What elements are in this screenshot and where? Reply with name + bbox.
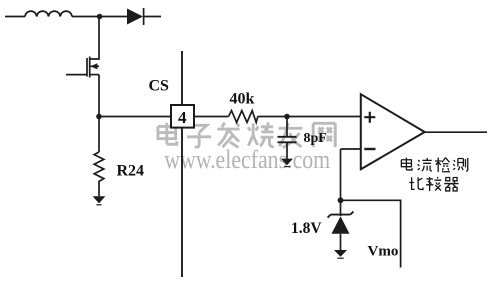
- ground under zener: [334, 250, 347, 258]
- wire cap bottom lead: [286, 142, 288, 158]
- ground under R24: [93, 196, 106, 205]
- wire minus input: [341, 148, 361, 150]
- wire node to R24: [98, 117, 100, 153]
- svg-text:CS: CS: [149, 78, 170, 95]
- diode D1: [127, 8, 144, 25]
- wire minus node vertical: [340, 149, 342, 200]
- junction dot node cap: [284, 114, 290, 120]
- wire gate lead: [66, 74, 87, 76]
- wire node to pin 4: [99, 116, 171, 118]
- capacitor C 8pF: [278, 137, 297, 143]
- svg-text:1.8V: 1.8V: [291, 220, 322, 237]
- ground under capacitor: [281, 159, 293, 167]
- svg-text:40k: 40k: [230, 91, 255, 108]
- svg-text:Vmo: Vmo: [368, 244, 399, 260]
- label comparator chinese line1 电流检测: [401, 158, 467, 172]
- watermark big text gray layer: [158, 122, 335, 147]
- wire resistor to opamp plus input: [258, 116, 361, 118]
- wire cap top lead: [286, 117, 288, 137]
- junction dot node zener: [338, 197, 344, 203]
- transistor Q1 MOSFET: [87, 57, 99, 78]
- wire diode cathode out: [144, 16, 161, 18]
- wire node to Vmo corner: [341, 200, 401, 267]
- svg-text:R24: R24: [117, 163, 145, 180]
- wire pin 4 to resistor: [194, 116, 229, 118]
- label comparator chinese line2 比较器: [409, 177, 458, 191]
- wire inductor to diode: [72, 16, 127, 18]
- junction dot node drain: [97, 14, 103, 20]
- watermark url: [163, 144, 330, 174]
- junction dot node CS: [96, 114, 102, 120]
- pin box 4: [171, 105, 194, 128]
- inductor L1: [25, 11, 72, 16]
- net line CS vertical: [181, 51, 183, 277]
- op-amp U1 comparator: [361, 94, 425, 169]
- svg-text:4: 4: [178, 108, 187, 127]
- svg-text:8pF: 8pF: [304, 131, 327, 146]
- wire opamp output: [425, 131, 487, 133]
- wire top-left input: [5, 16, 25, 18]
- watermark big text white glow layer: [157, 121, 334, 146]
- resistor R24: [94, 152, 104, 196]
- svg-text:www.elecfans.com: www.elecfans.com: [164, 145, 330, 174]
- wire source to node: [98, 75, 100, 117]
- wire drain vertical: [90, 17, 100, 60]
- resistor 40k: [229, 111, 258, 123]
- zener diode D2 1.8V: [328, 200, 354, 250]
